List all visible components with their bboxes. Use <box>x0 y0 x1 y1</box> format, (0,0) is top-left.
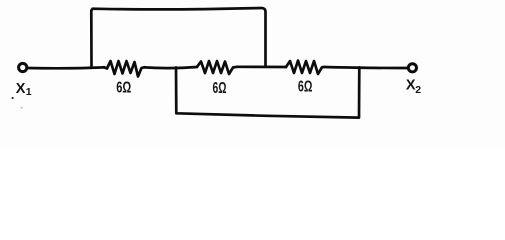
svg-text:1: 1 <box>26 86 32 98</box>
wire X1 to R1 <box>28 66 105 70</box>
terminal X2 <box>408 64 416 72</box>
wire R2 to R3 <box>237 65 286 68</box>
label X2 <box>406 78 421 97</box>
resistor R2 <box>197 61 237 74</box>
svg-text:X: X <box>16 81 26 97</box>
terminal X1 <box>19 63 27 71</box>
wire top loop <box>91 8 265 67</box>
svg-text:6Ω: 6Ω <box>116 79 131 96</box>
svg-text:6Ω: 6Ω <box>213 80 227 97</box>
resistor R3 <box>286 61 325 75</box>
svg-text:2: 2 <box>415 84 421 96</box>
speck smudge <box>21 107 23 109</box>
wire R3 to X2 <box>325 67 408 68</box>
speck below X1 <box>12 97 14 99</box>
label X1 <box>16 81 32 98</box>
resistor R1 <box>104 61 145 77</box>
svg-text:6Ω: 6Ω <box>298 79 313 96</box>
wire R1 to R2 <box>145 67 198 68</box>
wire bottom loop <box>176 67 359 117</box>
